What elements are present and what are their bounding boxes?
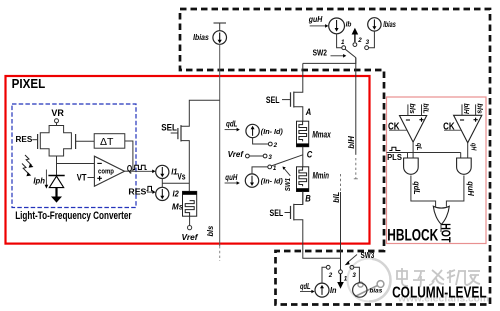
contact 1 (SW3) bbox=[339, 270, 343, 274]
svg-text:quH: quH bbox=[225, 173, 237, 182]
pixel red box bbox=[6, 76, 370, 244]
comparator U1 (bls/blL) bbox=[388, 103, 431, 142]
capacitor-device Ms bbox=[172, 191, 197, 216]
gate bar left bbox=[37, 134, 39, 149]
delta-T box bbox=[94, 134, 125, 149]
svg-text:SEL: SEL bbox=[270, 208, 284, 218]
svg-text:SW1: SW1 bbox=[283, 178, 292, 191]
output HOT bbox=[440, 224, 442, 232]
current direction arrow at contact 2 bbox=[352, 28, 363, 44]
current source (column bias) bbox=[353, 283, 383, 297]
wire I1-I2 junction to Vs line bbox=[162, 179, 189, 188]
PLS pulse input bbox=[387, 147, 461, 162]
svg-text:1: 1 bbox=[341, 39, 345, 46]
svg-text:qH: qH bbox=[470, 143, 479, 151]
svg-text:Vs: Vs bbox=[177, 172, 185, 182]
svg-text:Ibias: Ibias bbox=[383, 20, 396, 29]
and gate G2 (PLS,qH -> quH) bbox=[457, 153, 472, 175]
wire quH to or-gate bbox=[446, 176, 464, 207]
contact 2 (SW3) bbox=[326, 265, 330, 269]
label SW1 (rotated) with pointer arrow bbox=[283, 167, 292, 192]
svg-text:SEL: SEL bbox=[161, 123, 177, 133]
wire delta-T output down to Q node bbox=[125, 141, 133, 171]
contact 2 (SW2) bbox=[353, 43, 357, 47]
contact 3 (SW2) bbox=[365, 46, 369, 50]
ground bbox=[51, 188, 62, 203]
contact 1 bbox=[268, 165, 272, 169]
terminal Vref (switch position 3) bbox=[228, 150, 264, 159]
signal guH into current source Ib bbox=[308, 15, 329, 28]
current source I2 bbox=[156, 187, 179, 200]
svg-text:blH: blH bbox=[347, 135, 356, 149]
svg-text:qL: qL bbox=[415, 143, 424, 151]
svg-text:bls: bls bbox=[408, 103, 417, 113]
transistor SEL (bottom access) bbox=[270, 192, 341, 259]
svg-text:PLS: PLS bbox=[387, 152, 402, 162]
svg-text:ΔT: ΔT bbox=[100, 136, 114, 148]
svg-text:SEL: SEL bbox=[266, 95, 280, 105]
svg-text:bias: bias bbox=[370, 288, 383, 295]
wire A-C column bbox=[302, 147, 304, 167]
memory device Mmin bbox=[297, 167, 330, 192]
svg-text:C: C bbox=[307, 149, 313, 159]
op-amp comparator comp bbox=[94, 156, 124, 186]
current source Ib bbox=[329, 18, 352, 34]
svg-text:guH: guH bbox=[308, 15, 323, 24]
svg-text:3: 3 bbox=[366, 39, 370, 46]
current direction arrow below contact 1 bbox=[337, 274, 344, 289]
svg-text:3: 3 bbox=[268, 154, 272, 161]
label SW2 with pointer arrow bbox=[313, 48, 347, 57]
svg-text:I2: I2 bbox=[173, 189, 179, 199]
gate bar right bbox=[75, 134, 77, 149]
svg-text:(In- Id): (In- Id) bbox=[261, 177, 284, 186]
or gate G3 (HOT) bbox=[433, 206, 449, 224]
transistor SEL (pixel follower select) bbox=[161, 100, 220, 191]
svg-text:blL: blL bbox=[332, 192, 341, 203]
svg-text:B: B bbox=[305, 194, 311, 204]
current source In bbox=[315, 283, 337, 297]
svg-text:qdL: qdL bbox=[300, 282, 311, 291]
wire sense node bbox=[57, 156, 95, 176]
memory device Mmax bbox=[297, 121, 332, 147]
transistor SEL (top access) bbox=[266, 63, 303, 121]
svg-text:In: In bbox=[330, 286, 337, 295]
signal qdL with current source (In-Id) pull-down bbox=[225, 119, 284, 137]
wire bls column line bbox=[219, 44, 221, 246]
incident light arrows bbox=[22, 155, 32, 174]
svg-text:VR: VR bbox=[51, 108, 64, 118]
svg-text:Vref: Vref bbox=[228, 150, 245, 159]
svg-text:CK: CK bbox=[388, 121, 400, 132]
svg-text:1: 1 bbox=[273, 165, 277, 172]
svg-text:RES: RES bbox=[128, 188, 147, 197]
photodiode bbox=[48, 176, 64, 188]
svg-text:Mmin: Mmin bbox=[313, 171, 330, 181]
svg-text:VT: VT bbox=[77, 172, 87, 182]
watermark CJK characters 电子发烧友 (outline approximation) bbox=[397, 268, 480, 287]
svg-text:2: 2 bbox=[328, 272, 333, 279]
svg-text:A: A bbox=[305, 107, 311, 117]
svg-text:bls: bls bbox=[206, 225, 215, 236]
svg-text:Ibias: Ibias bbox=[193, 32, 209, 42]
contact 1 (SW2) bbox=[342, 46, 346, 50]
wire qdL source to contact 2 bbox=[253, 138, 269, 144]
wire B bbox=[302, 192, 304, 205]
svg-text:SW3: SW3 bbox=[361, 251, 375, 260]
wire contact 3 to bias source bbox=[354, 267, 360, 283]
signal qdL into In source bbox=[300, 282, 315, 293]
signal quH with current source (In-Id) pull-up bbox=[225, 173, 284, 187]
label Iph with current arrow bbox=[33, 170, 48, 189]
contact 3 (SW3) bbox=[350, 265, 354, 269]
svg-text:HBLOCK: HBLOCK bbox=[387, 226, 438, 245]
contact 3 bbox=[263, 154, 267, 158]
svg-text:Iph: Iph bbox=[33, 176, 45, 185]
svg-text:Mmax: Mmax bbox=[312, 130, 331, 140]
svg-text:Vref: Vref bbox=[182, 233, 199, 242]
RES waveform input to I2 bbox=[128, 186, 155, 196]
outer dashed block boundary (bias / hblock / column-level region) bbox=[180, 9, 490, 305]
contact 2 bbox=[268, 142, 272, 146]
watermark logo circle bbox=[348, 259, 391, 302]
output qH bbox=[467, 143, 469, 158]
output qL bbox=[412, 142, 414, 158]
svg-text:(In- Id): (In- Id) bbox=[261, 127, 284, 136]
svg-text:SW2: SW2 bbox=[313, 48, 328, 57]
svg-text:Ms: Ms bbox=[172, 202, 184, 212]
svg-text:comp: comp bbox=[98, 166, 114, 175]
and gate G1 (PLS,qL -> qdL) bbox=[404, 153, 419, 175]
wire right gate to delta-T box bbox=[76, 140, 95, 142]
bit line blL bbox=[332, 174, 341, 270]
svg-text:blL: blL bbox=[422, 103, 431, 114]
svg-text:3: 3 bbox=[352, 272, 356, 279]
terminal VR bbox=[51, 108, 64, 126]
svg-text:2: 2 bbox=[357, 37, 362, 44]
switch SW2 lever bbox=[345, 49, 356, 57]
wire quH source to contact 1 bbox=[252, 167, 268, 174]
svg-text:CK: CK bbox=[443, 121, 455, 132]
svg-text:Light-To-Frequency Converter: Light-To-Frequency Converter bbox=[15, 210, 132, 222]
current source Ibias (top-right) bbox=[368, 18, 396, 31]
svg-text:quH: quH bbox=[466, 181, 475, 196]
wire Ib to contact 1 bbox=[337, 34, 342, 48]
svg-text:bls: bls bbox=[476, 103, 485, 113]
wire Ibias to contact 3 bbox=[369, 31, 375, 48]
svg-text:2: 2 bbox=[273, 142, 278, 149]
svg-text:Ib: Ib bbox=[346, 19, 352, 28]
svg-text:RES: RES bbox=[16, 135, 33, 144]
wire contact 2 to In source bbox=[322, 267, 326, 283]
svg-text:HOT: HOT bbox=[439, 223, 454, 242]
svg-text:blH: blH bbox=[462, 103, 471, 114]
svg-text:1: 1 bbox=[344, 275, 348, 282]
current source I1 bbox=[156, 165, 178, 178]
svg-text:qdL: qdL bbox=[226, 119, 238, 128]
svg-text:PIXEL: PIXEL bbox=[12, 77, 46, 91]
svg-text:COLUMN-LEVEL: COLUMN-LEVEL bbox=[392, 285, 487, 302]
output Q with waveform bbox=[125, 163, 156, 174]
svg-text:Q: Q bbox=[127, 163, 132, 174]
wire SW2 common down and branch to SEL column bbox=[303, 58, 356, 64]
comparator U2 (blH/bls) bbox=[443, 103, 484, 142]
switch SW1 lever (contact 1 to node C) bbox=[272, 155, 303, 166]
wire qdL to or-gate bbox=[411, 176, 436, 207]
current source Ibias (top-left) bbox=[193, 23, 226, 44]
hblock red box bbox=[387, 97, 487, 244]
label SW3 with pointer arrow bbox=[345, 251, 375, 265]
svg-text:qdL: qdL bbox=[412, 181, 421, 194]
bit line blH bbox=[347, 58, 358, 179]
terminal Vref (below Ms) bbox=[182, 216, 199, 242]
reset device (cross-shaped double-gate MOS) bbox=[40, 126, 71, 157]
LFC blue dashed box bbox=[12, 104, 136, 208]
